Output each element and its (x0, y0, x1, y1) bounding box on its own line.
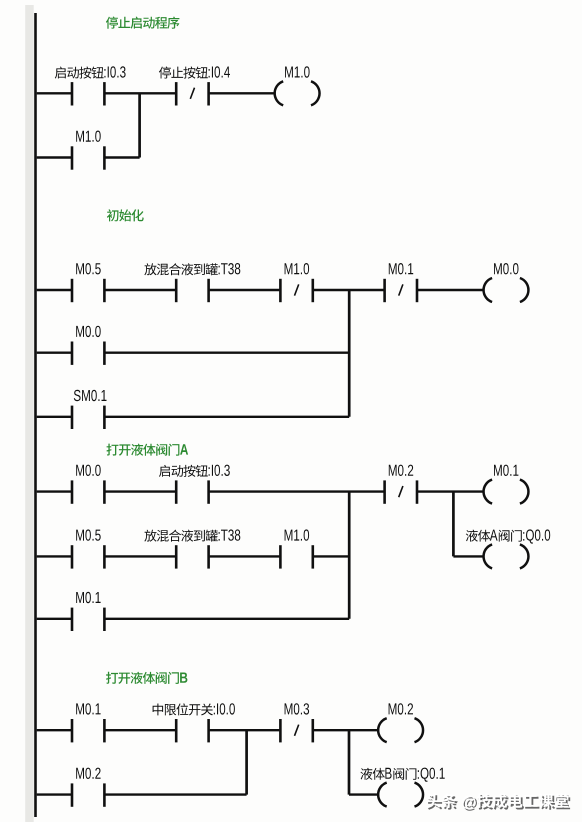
coil M1.0 (275, 66, 320, 105)
contact 启动按钮 I0.3 (NO) (55, 66, 126, 105)
wire N3 M0.0 to I0.3 (105, 490, 175, 492)
wire N3 parallel branch junction (348, 492, 351, 619)
wire N2 T38 to M1.0 (210, 289, 280, 291)
power rail (34, 13, 37, 817)
wire N3 M0.2 to coil (418, 490, 485, 492)
wire N4 M0.2 to junction (105, 793, 246, 795)
wire N4 M0.1 to I0.0 (105, 729, 175, 731)
wire N3 M1.0 to junction (314, 555, 349, 557)
contact M1.0 (NO) (72, 131, 104, 170)
contact M0.5 (NO) (72, 263, 104, 302)
wire N2 M0.0 to junction (105, 352, 349, 354)
contact M0.2 (NC) (385, 465, 417, 504)
wire N3 M0.1 to junction (105, 618, 349, 620)
left margin gray band (25, 5, 34, 822)
wire N2 parallel branch junction (348, 290, 351, 417)
contact 启动按钮 I0.3 (NO) (159, 465, 230, 504)
wire N3 I0.3 to M0.2 (210, 490, 384, 492)
network 1 title (106, 17, 180, 29)
contact 放混合液到罐 T38 (NO) (144, 263, 240, 302)
watermark 头条@技成电工课堂 (426, 793, 570, 811)
contact M0.1 (NC) (385, 263, 417, 302)
wire N4 I0.0 to M0.3 (210, 729, 280, 731)
wire N1 M1.0 to junction (105, 156, 139, 158)
coil 液体A阀门 Q0.0 (466, 529, 550, 568)
contact M0.3 (NC) (280, 703, 312, 742)
contact 放混合液到罐 T38 (NO) (144, 529, 240, 568)
wire N3 rail to M0.1 (37, 618, 71, 620)
contact M0.0 (NO) (72, 465, 104, 504)
wire N2 M0.1 to coil (418, 289, 485, 291)
network 4 title (106, 672, 187, 684)
wire N4 M0.3 to coil (314, 729, 379, 731)
wire N3 output branch to Q0.0 (452, 492, 455, 557)
wire N2 M0.5 to T38 (105, 289, 175, 291)
wire N2 rail to M0.5 (37, 289, 71, 291)
contact M0.1 (NO) (72, 703, 104, 742)
contact SM0.1 (NO) (72, 390, 107, 429)
wire N1 rail to M1.0 contact (37, 156, 71, 158)
contact M0.2 (NO) (72, 768, 104, 807)
wire N3 M0.5 to T38 (105, 555, 175, 557)
wire N4 output branch to Q0.1 (348, 730, 351, 794)
wire N2 SM0.1 to junction (105, 416, 349, 418)
wire N3 T38 to M1.0 (210, 555, 280, 557)
coil M0.1 coil (484, 465, 529, 504)
coil M0.0 (484, 263, 529, 302)
wire N2 rail to SM0.1 (37, 416, 71, 418)
wire N3 branch to Q0.0 coil (453, 555, 484, 557)
wire N4 branch to Q0.1 coil (349, 793, 379, 795)
contact M0.5 (NO) (72, 529, 104, 568)
wire N4 rail to M0.1 (37, 729, 71, 731)
wire N4 parallel branch junction (245, 730, 248, 794)
contact 中限位开关 I0.0 (NO) (153, 703, 235, 742)
contact M1.0 (NC) (280, 263, 312, 302)
contact 停止按钮 I0.4 (NC) (159, 66, 230, 105)
contact M1.0 (NO) (280, 529, 312, 568)
wire N1 I0.3 to I0.4 (105, 92, 175, 94)
contact M0.1 (NO) (72, 592, 104, 631)
wire N1 rail to I0.3 contact (37, 92, 71, 94)
network 2 title (107, 209, 144, 221)
wire N3 rail to M0.0 (37, 490, 71, 492)
network 3 title (107, 444, 189, 456)
wire N3 rail to M0.5 (37, 555, 71, 557)
coil 液体B阀门 Q0.1 (360, 768, 444, 807)
wire N4 rail to M0.2 (37, 793, 71, 795)
wire N2 M1.0 to M0.1 (314, 289, 384, 291)
contact M0.0 (NO) (72, 326, 104, 365)
coil M0.2 coil (378, 703, 423, 742)
wire N1 I0.4 to coil (210, 92, 276, 94)
wire N2 rail to M0.0 (37, 352, 71, 354)
wire N1 parallel branch junction (138, 93, 141, 157)
